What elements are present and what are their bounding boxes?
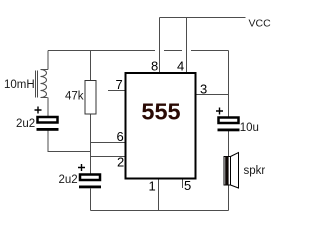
svg-text:10u: 10u <box>240 122 259 134</box>
svg-text:2u2: 2u2 <box>59 174 78 186</box>
wire pin4 riser to VCC <box>186 18 188 73</box>
label 47k <box>65 91 84 103</box>
svg-text:3: 3 <box>200 82 207 97</box>
wire riser to pin3/C3 <box>228 51 230 117</box>
wire pin1 to ground <box>158 180 160 211</box>
pin label 5 <box>184 178 191 193</box>
wire pin8 riser to VCC <box>159 18 161 73</box>
svg-text:10mH: 10mH <box>4 79 35 91</box>
wire pin6 <box>91 142 127 144</box>
pin label 7 <box>116 77 123 92</box>
label VCC <box>249 18 272 30</box>
svg-text:VCC: VCC <box>249 18 272 30</box>
wire C1 bottom down and right to node <box>48 131 90 152</box>
svg-text:2: 2 <box>117 155 124 170</box>
svg-text:2u2: 2u2 <box>16 118 35 130</box>
svg-text:47k: 47k <box>65 91 84 103</box>
svg-text:8: 8 <box>151 59 158 74</box>
inductor L1 10mH <box>36 70 49 98</box>
wire inductor bottom to C1 <box>47 98 49 117</box>
wire left vertical top to inductor <box>47 51 49 70</box>
pin label 3 <box>200 82 207 97</box>
svg-text:6: 6 <box>117 129 124 144</box>
svg-text:555: 555 <box>141 99 180 125</box>
svg-text:spkr: spkr <box>244 165 266 177</box>
wire pin7 stub <box>108 90 126 92</box>
pin label 4 <box>177 59 184 74</box>
wire feedback line (top horizontal with hops) <box>48 50 229 52</box>
pin label 8 <box>151 59 158 74</box>
wire ground rail <box>91 210 229 212</box>
wire resistor bottom to C2 (node vertical) <box>90 114 92 174</box>
label spkr <box>244 165 266 177</box>
label 10u <box>240 122 259 134</box>
wire feedback line to resistor top <box>90 51 92 82</box>
wire C3 bottom to speaker <box>228 131 230 157</box>
svg-text:5: 5 <box>184 178 191 193</box>
capacitor C1 2u2 (polarized) <box>35 107 59 131</box>
svg-text:1: 1 <box>149 179 156 194</box>
wire speaker bottom to ground rail <box>228 186 230 211</box>
svg-text:7: 7 <box>116 77 123 92</box>
wire pin5 stub <box>182 180 184 189</box>
label 10mH <box>4 79 35 91</box>
capacitor C3 10u (polarized) <box>216 108 240 132</box>
pin label 1 <box>149 179 156 194</box>
label 2u2 (C2) <box>59 174 78 186</box>
IC U1 555 body <box>126 73 196 179</box>
wire VCC rail <box>160 17 246 19</box>
wire C2 bottom to ground rail <box>90 189 92 211</box>
wire pin2 <box>91 156 127 158</box>
pin label 6 <box>117 129 124 144</box>
speaker SPKR <box>224 153 239 189</box>
wire pin3 <box>197 94 229 96</box>
resistor R1 47k <box>85 81 96 115</box>
label 2u2 (C1) <box>16 118 35 130</box>
svg-text:4: 4 <box>177 59 184 74</box>
capacitor C2 2u2 (polarized) <box>78 164 101 188</box>
pin label 2 <box>117 155 124 170</box>
